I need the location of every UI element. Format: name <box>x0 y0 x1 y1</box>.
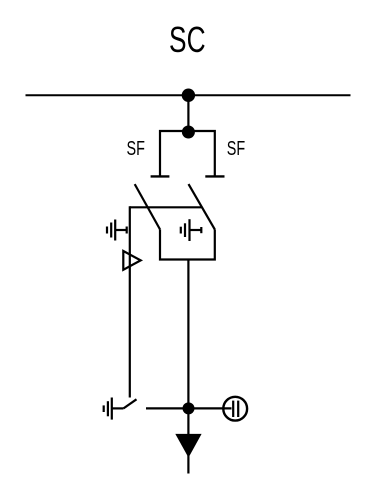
svg-text:SF: SF <box>227 137 245 160</box>
svg-text:SF: SF <box>127 137 145 160</box>
svg-text:SC: SC <box>169 19 206 60</box>
